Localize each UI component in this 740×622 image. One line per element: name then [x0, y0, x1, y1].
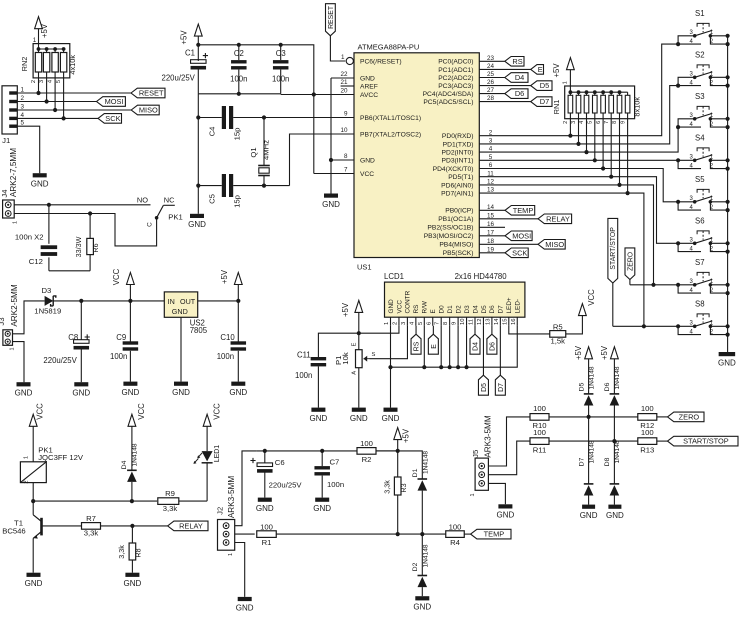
svg-text:12: 12: [487, 179, 495, 186]
svg-text:100: 100: [641, 404, 654, 413]
wire LCD E: [432, 326, 434, 334]
flag D7 (LCD): [495, 375, 505, 395]
svg-text:PC6(/RESET): PC6(/RESET): [360, 58, 402, 65]
resistor R9 3,3k: [158, 489, 179, 513]
relay coil PK1 JQC3FF 12V: [20, 446, 84, 502]
junction snubber R6: [88, 211, 92, 215]
svg-text:GND: GND: [310, 414, 328, 423]
flag START/STOP (J5): [668, 436, 739, 446]
wire LCD pin1 to gnd: [390, 326, 392, 408]
svg-text:D6: D6: [489, 342, 496, 351]
ground C10: [229, 382, 247, 397]
ground MCU: [322, 194, 340, 209]
svg-text:RESET: RESET: [328, 5, 335, 29]
pin 16 PB2(SS/OC1B) stub: [479, 221, 505, 228]
svg-text:RELAY: RELAY: [179, 522, 203, 531]
switch S3: [678, 92, 730, 129]
svg-text:PC3(ADC3): PC3(ADC3): [438, 83, 473, 90]
junction +5V R2: [396, 449, 400, 453]
svg-text:R4: R4: [450, 538, 461, 547]
svg-text:D3: D3: [464, 305, 471, 314]
svg-text:PC1(ADC1): PC1(ADC1): [438, 67, 473, 74]
flag START/STOP (vertical): [608, 218, 618, 283]
pin 3 PD1 row to S2: [479, 86, 678, 145]
wire R9 to LED1: [179, 500, 207, 502]
svg-text:21: 21: [340, 79, 348, 86]
svg-text:RN1: RN1: [552, 100, 561, 115]
svg-text:13: 13: [487, 187, 495, 194]
svg-text:E: E: [430, 309, 437, 313]
svg-text:2: 2: [563, 121, 569, 124]
svg-text:PB4(MISO): PB4(MISO): [439, 242, 473, 249]
svg-text:5: 5: [56, 80, 62, 83]
svg-text:R7: R7: [86, 514, 96, 523]
svg-text:ARK3-5MM: ARK3-5MM: [483, 415, 492, 457]
switch S2: [678, 51, 730, 88]
ground D2: [413, 596, 431, 611]
junction RN1-6/PD4: [601, 166, 605, 170]
power +5V (RN2): [35, 17, 49, 44]
wire R12 to ZERO: [657, 416, 668, 418]
pin 13 PD7 row to START/STOP net: [479, 187, 644, 327]
wire R4 to TEMP: [464, 533, 470, 535]
svg-text:3,3k: 3,3k: [84, 529, 99, 538]
svg-text:MOSI: MOSI: [105, 97, 124, 106]
svg-text:D2: D2: [412, 562, 419, 571]
junction S5 in: [676, 200, 680, 204]
wire J4-2 to contact C: [14, 214, 156, 246]
junction D1 gnd: [448, 365, 452, 369]
wire R5 to VCC: [566, 316, 583, 334]
wire LCD D4: [474, 326, 476, 334]
pin 20 AVCC stub: [314, 88, 354, 95]
ground J2: [236, 597, 254, 612]
svg-text:SCK: SCK: [512, 248, 527, 257]
capacitor C10 100n: [217, 301, 246, 382]
svg-text:D5: D5: [540, 81, 549, 90]
svg-text:D1: D1: [447, 305, 454, 314]
junction bus C5: [196, 184, 200, 188]
svg-text:R9: R9: [165, 489, 175, 498]
svg-text:C5: C5: [208, 194, 217, 204]
wire ZERO flag drop: [629, 280, 631, 285]
flag TEMP (MCU): [505, 206, 535, 216]
svg-text:GND: GND: [382, 414, 400, 423]
junction RN1-4/PD2: [584, 150, 588, 154]
junction SCK/RN2: [62, 116, 66, 120]
wire D3 to US2 IN: [53, 300, 164, 302]
transistor T1 BC546: [2, 501, 41, 573]
svg-text:6: 6: [596, 121, 602, 124]
svg-text:AREF: AREF: [360, 83, 378, 90]
pin 26 PC3(ADC3) stub: [479, 79, 530, 86]
svg-text:20: 20: [340, 88, 348, 95]
svg-text:RS: RS: [413, 305, 420, 314]
svg-text:10: 10: [460, 319, 466, 325]
flag RESET: [131, 88, 165, 98]
flag RELAY (T1): [168, 521, 208, 531]
svg-text:5: 5: [489, 154, 493, 161]
svg-text:1N4148: 1N4148: [422, 544, 429, 567]
svg-text:PB7(XTAL2/TOSC2): PB7(XTAL2/TOSC2): [360, 131, 421, 138]
wire LCD D1 to gnd bus: [449, 326, 451, 367]
svg-text:D4: D4: [121, 460, 128, 469]
svg-text:C10: C10: [220, 333, 235, 342]
svg-text:GND: GND: [256, 504, 274, 513]
pin 25 PC2(ADC2) stub: [479, 71, 505, 78]
svg-text:ARK2-7,5MM: ARK2-7,5MM: [9, 148, 18, 197]
svg-text:PD7(AIN1): PD7(AIN1): [441, 191, 473, 198]
svg-text:GND: GND: [31, 180, 49, 189]
svg-text:PD1(TXD): PD1(TXD): [443, 141, 474, 148]
svg-text:GND: GND: [718, 358, 736, 367]
wire J1-4 SCK: [17, 117, 98, 119]
capacitor C2 100n: [230, 45, 247, 94]
ground P1: [350, 408, 368, 423]
svg-text:D7: D7: [540, 97, 549, 106]
connector J1 ARK2-7,5MM: [2, 86, 24, 197]
svg-text:GND: GND: [580, 511, 598, 520]
svg-text:3: 3: [20, 103, 24, 110]
svg-text:S3: S3: [695, 92, 705, 101]
ground C7: [313, 498, 331, 513]
svg-text:C3: C3: [276, 49, 286, 58]
svg-text:+5V: +5V: [552, 63, 561, 78]
svg-text:R8: R8: [134, 548, 143, 557]
flag RELAY (MCU): [538, 214, 572, 224]
ground T1: [25, 573, 43, 588]
junction R/W gnd: [422, 365, 426, 369]
svg-text:1: 1: [10, 347, 16, 350]
svg-text:A: A: [352, 371, 358, 375]
svg-text:VCC: VCC: [137, 403, 146, 420]
wire LCD D5: [482, 326, 484, 375]
capacitor C4 15p: [198, 106, 354, 140]
svg-text:17: 17: [487, 229, 495, 236]
junction S2 in: [676, 84, 680, 88]
resistor R7 3,3k: [82, 514, 101, 538]
svg-text:GND: GND: [188, 220, 206, 229]
wire START/STOP flag drop: [612, 283, 614, 326]
wire J1-2 MOSI: [17, 101, 96, 103]
svg-text:TEMP: TEMP: [484, 530, 505, 539]
resistor R13 100: [638, 428, 657, 454]
junction S1 in: [676, 42, 680, 46]
svg-text:J1: J1: [2, 136, 10, 145]
svg-text:RS: RS: [512, 57, 522, 66]
svg-text:24: 24: [487, 63, 495, 70]
svg-text:D7: D7: [578, 457, 585, 466]
svg-text:PD6(AIN0): PD6(AIN0): [441, 182, 473, 189]
svg-text:5: 5: [588, 121, 594, 124]
svg-text:9: 9: [344, 111, 348, 118]
svg-text:C11: C11: [297, 351, 311, 360]
ground US2: [172, 382, 190, 397]
wire MCU GND pins: [330, 78, 332, 194]
svg-text:ZERO: ZERO: [679, 413, 700, 422]
wire snubber bottom: [49, 270, 90, 272]
ground C11: [310, 408, 328, 423]
junction +5V/C10: [236, 299, 240, 303]
svg-text:C9: C9: [116, 333, 126, 342]
junction rail C1: [196, 43, 200, 47]
power VCC (PK1): [29, 403, 44, 462]
svg-text:PK1: PK1: [168, 213, 183, 222]
svg-text:+5V: +5V: [180, 30, 189, 45]
pin 24 PC1(ADC1) stub: [479, 63, 530, 70]
resistor R3 3,3k: [382, 451, 408, 534]
svg-text:3: 3: [571, 121, 577, 124]
svg-text:28: 28: [487, 95, 495, 102]
svg-text:GND: GND: [122, 388, 140, 397]
wire LED+ to R5: [509, 326, 550, 334]
wire J1-5 to GND: [17, 126, 39, 173]
svg-text:VCC: VCC: [213, 403, 222, 420]
svg-text:ATMEGA88PA-PU: ATMEGA88PA-PU: [358, 42, 420, 51]
wire supply rail bottom: [257, 450, 398, 452]
svg-text:100: 100: [641, 428, 654, 437]
svg-text:MOSI: MOSI: [512, 231, 531, 240]
svg-text:PD3(INT1): PD3(INT1): [442, 158, 474, 165]
wire RN1 pin9 drop: [627, 119, 629, 193]
flag D4: [505, 73, 528, 83]
svg-text:S8: S8: [695, 300, 705, 309]
svg-text:3,3k: 3,3k: [117, 545, 126, 559]
ground LCD: [382, 408, 400, 423]
svg-text:START/STOP: START/STOP: [610, 227, 617, 270]
wire J3-1 to D3: [13, 301, 45, 334]
svg-text:J5: J5: [471, 450, 480, 458]
svg-text:100n: 100n: [110, 352, 127, 361]
pin 8 GND stub: [331, 153, 354, 160]
svg-text:C4: C4: [208, 126, 217, 137]
svg-text:R1: R1: [262, 538, 272, 547]
junction C7 top: [320, 449, 324, 453]
wire switch ground bus: [727, 36, 729, 352]
pin 10 XTAL2 number: [340, 127, 348, 134]
svg-text:D5: D5: [481, 305, 488, 314]
svg-text:100n: 100n: [217, 352, 234, 361]
svg-text:18: 18: [487, 238, 495, 245]
svg-text:OUT: OUT: [180, 297, 196, 306]
pin 5 PD3 row to S4: [479, 154, 678, 161]
relay contact PK1: [146, 195, 183, 227]
svg-text:S6: S6: [695, 217, 705, 226]
flag E (LCD): [428, 334, 438, 354]
svg-text:PB3(MOSI/OC2): PB3(MOSI/OC2): [424, 233, 474, 240]
svg-text:1N5819: 1N5819: [34, 307, 61, 316]
diode D3 1N5819: [34, 286, 61, 315]
svg-text:Q1: Q1: [249, 147, 258, 157]
power +5V (D5): [574, 345, 592, 394]
svg-text:GND: GND: [388, 299, 395, 314]
connector J5 ARK3-5MM: [470, 415, 492, 496]
flag MOSI: [97, 97, 126, 107]
flag MISO: [131, 105, 159, 115]
svg-text:C12: C12: [29, 257, 43, 266]
wire RN1 pin5 drop: [594, 119, 596, 161]
LCD module LCD1 2x16 HD44780: [384, 272, 525, 326]
ground J5: [497, 504, 515, 519]
svg-text:2: 2: [20, 95, 24, 102]
wire RN2 pin4 to MISO net: [54, 78, 56, 110]
crystal Q1 4MHz: [249, 118, 271, 186]
svg-text:GND: GND: [15, 389, 33, 398]
svg-text:D5: D5: [481, 383, 488, 392]
svg-text:19: 19: [487, 246, 495, 253]
flag RESET (MCU): [326, 4, 336, 36]
junction STSP/PD7: [642, 324, 646, 328]
svg-text:26: 26: [487, 79, 495, 86]
pin 1 bubble PC6: [341, 54, 353, 65]
svg-text:6: 6: [426, 322, 432, 325]
svg-text:3: 3: [401, 322, 407, 325]
svg-text:11: 11: [487, 170, 494, 177]
svg-text:3,3k: 3,3k: [163, 504, 178, 513]
svg-text:D3: D3: [42, 286, 52, 295]
capacitor C11 100n: [295, 351, 326, 408]
svg-text:MISO: MISO: [545, 240, 564, 249]
svg-text:S5: S5: [695, 175, 705, 184]
junction bus C4: [196, 115, 200, 119]
wire ZERO row: [549, 416, 638, 418]
svg-text:10: 10: [340, 127, 348, 134]
svg-text:GND: GND: [124, 579, 142, 588]
resistor network RN2 4x10k: [20, 37, 77, 83]
svg-text:RN2: RN2: [20, 57, 29, 72]
ground J1: [31, 173, 49, 188]
wire base to R7: [42, 525, 82, 527]
svg-text:J3: J3: [0, 317, 6, 325]
svg-text:GND: GND: [172, 388, 190, 397]
svg-text:33/3W: 33/3W: [74, 236, 83, 257]
flag E: [531, 65, 544, 75]
svg-text:16: 16: [511, 319, 517, 325]
svg-text:1: 1: [563, 81, 569, 84]
svg-text:D4: D4: [515, 73, 524, 82]
pin 28 PC5(ADC5/SCL) stub: [479, 95, 530, 102]
junction rail C3: [279, 43, 283, 47]
resistor R8 3,3k: [117, 526, 143, 573]
wire J1-3 MISO: [17, 109, 131, 111]
svg-text:GND: GND: [497, 511, 515, 520]
junction Q1 bottom: [262, 184, 266, 188]
pin 11 PD5 row to S6: [479, 170, 678, 243]
op-amp U1 : microcontroller US1 ATMEGA88PA-PU: [354, 42, 479, 271]
wire US2 OUT +5V: [198, 300, 239, 302]
svg-text:D4: D4: [472, 305, 479, 314]
svg-text:220u/25V: 220u/25V: [43, 356, 77, 365]
svg-text:4: 4: [579, 121, 585, 124]
junction ZERO/PD6: [651, 283, 655, 287]
svg-text:AVCC: AVCC: [360, 92, 378, 99]
flag SCK: [98, 114, 122, 124]
svg-text:J2: J2: [215, 507, 224, 515]
switch S5: [678, 175, 730, 212]
svg-text:1: 1: [24, 456, 30, 459]
svg-text:2: 2: [489, 129, 493, 136]
flag D5 (LCD): [478, 375, 488, 395]
svg-text:5: 5: [20, 120, 24, 127]
pin 23 PC0(ADC0) stub: [479, 55, 505, 62]
pin 4 PD2 row to S3: [479, 127, 678, 153]
wire J2-1 to gnd: [235, 543, 245, 597]
svg-text:7: 7: [344, 167, 348, 174]
wire R13 to START/STOP: [657, 440, 668, 442]
svg-text:PC2(ADC2): PC2(ADC2): [438, 75, 473, 82]
junction RN1-3/PD1: [576, 142, 580, 146]
svg-text:+5V: +5V: [600, 345, 609, 360]
svg-text:+5V: +5V: [40, 23, 49, 38]
svg-text:D7: D7: [498, 305, 505, 314]
svg-text:C6: C6: [275, 458, 285, 467]
pin 9 XTAL1 number: [344, 111, 348, 118]
junction S6 in: [676, 241, 680, 245]
wire LCD D6: [491, 326, 493, 334]
junction D6/D8: [612, 439, 616, 443]
svg-text:PB1(OC1A): PB1(OC1A): [438, 216, 473, 223]
svg-text:1N4148: 1N4148: [132, 443, 139, 466]
svg-text:3: 3: [39, 80, 45, 83]
power +5V (supply): [220, 269, 242, 301]
junction S7 in: [676, 283, 680, 287]
resistor R10 100: [530, 404, 549, 430]
svg-text:R2: R2: [362, 455, 372, 464]
junction VCC/C9: [128, 299, 132, 303]
svg-text:GND: GND: [360, 75, 375, 82]
svg-text:PC0(ADC0): PC0(ADC0): [438, 59, 473, 66]
power VCC (R5): [579, 289, 596, 316]
svg-text:15p: 15p: [233, 128, 242, 141]
svg-text:220u/25V: 220u/25V: [269, 481, 303, 490]
capacitor C5 15p: [198, 174, 289, 208]
diode D4 1N4148: [121, 443, 139, 501]
svg-text:START/STOP: START/STOP: [683, 437, 729, 446]
diode D1 1N4148: [412, 451, 429, 534]
capacitor C7 100n: [314, 451, 344, 498]
svg-text:2: 2: [31, 80, 37, 83]
wire left ground bus: [197, 94, 199, 214]
ground J3: [15, 382, 33, 397]
svg-text:D5: D5: [578, 382, 585, 391]
svg-text:100n: 100n: [327, 480, 344, 489]
svg-text:R/W: R/W: [422, 300, 429, 313]
svg-text:3: 3: [489, 138, 493, 145]
wire RN1 pin8 drop: [619, 119, 621, 185]
wire RN2 pin3 to MOSI net: [46, 78, 48, 102]
svg-text:D6: D6: [515, 89, 524, 98]
svg-text:2: 2: [24, 480, 30, 483]
svg-text:GND: GND: [25, 579, 43, 588]
wire R1 to R4: [276, 533, 446, 535]
junction D3 gnd: [464, 365, 468, 369]
wire RN2 pin5 to SCK net: [63, 78, 65, 119]
wire LCD D7: [499, 326, 501, 375]
resistor R2 100: [357, 439, 376, 464]
svg-text:PD2(INT0): PD2(INT0): [442, 150, 474, 157]
wire RN1 pin6 drop: [602, 119, 604, 169]
pin 6 PD4 row to S5: [479, 162, 678, 202]
flag MISO (MCU): [538, 240, 565, 250]
wire LCD R/W to gnd bus: [423, 326, 425, 367]
junction S8 in: [676, 324, 680, 328]
svg-text:VCC: VCC: [112, 268, 121, 285]
svg-text:GND: GND: [360, 157, 375, 164]
svg-text:100n: 100n: [295, 371, 312, 380]
junction RN1-7/PD5: [609, 175, 613, 179]
svg-text:8: 8: [443, 322, 449, 325]
ground switches: [718, 352, 736, 367]
